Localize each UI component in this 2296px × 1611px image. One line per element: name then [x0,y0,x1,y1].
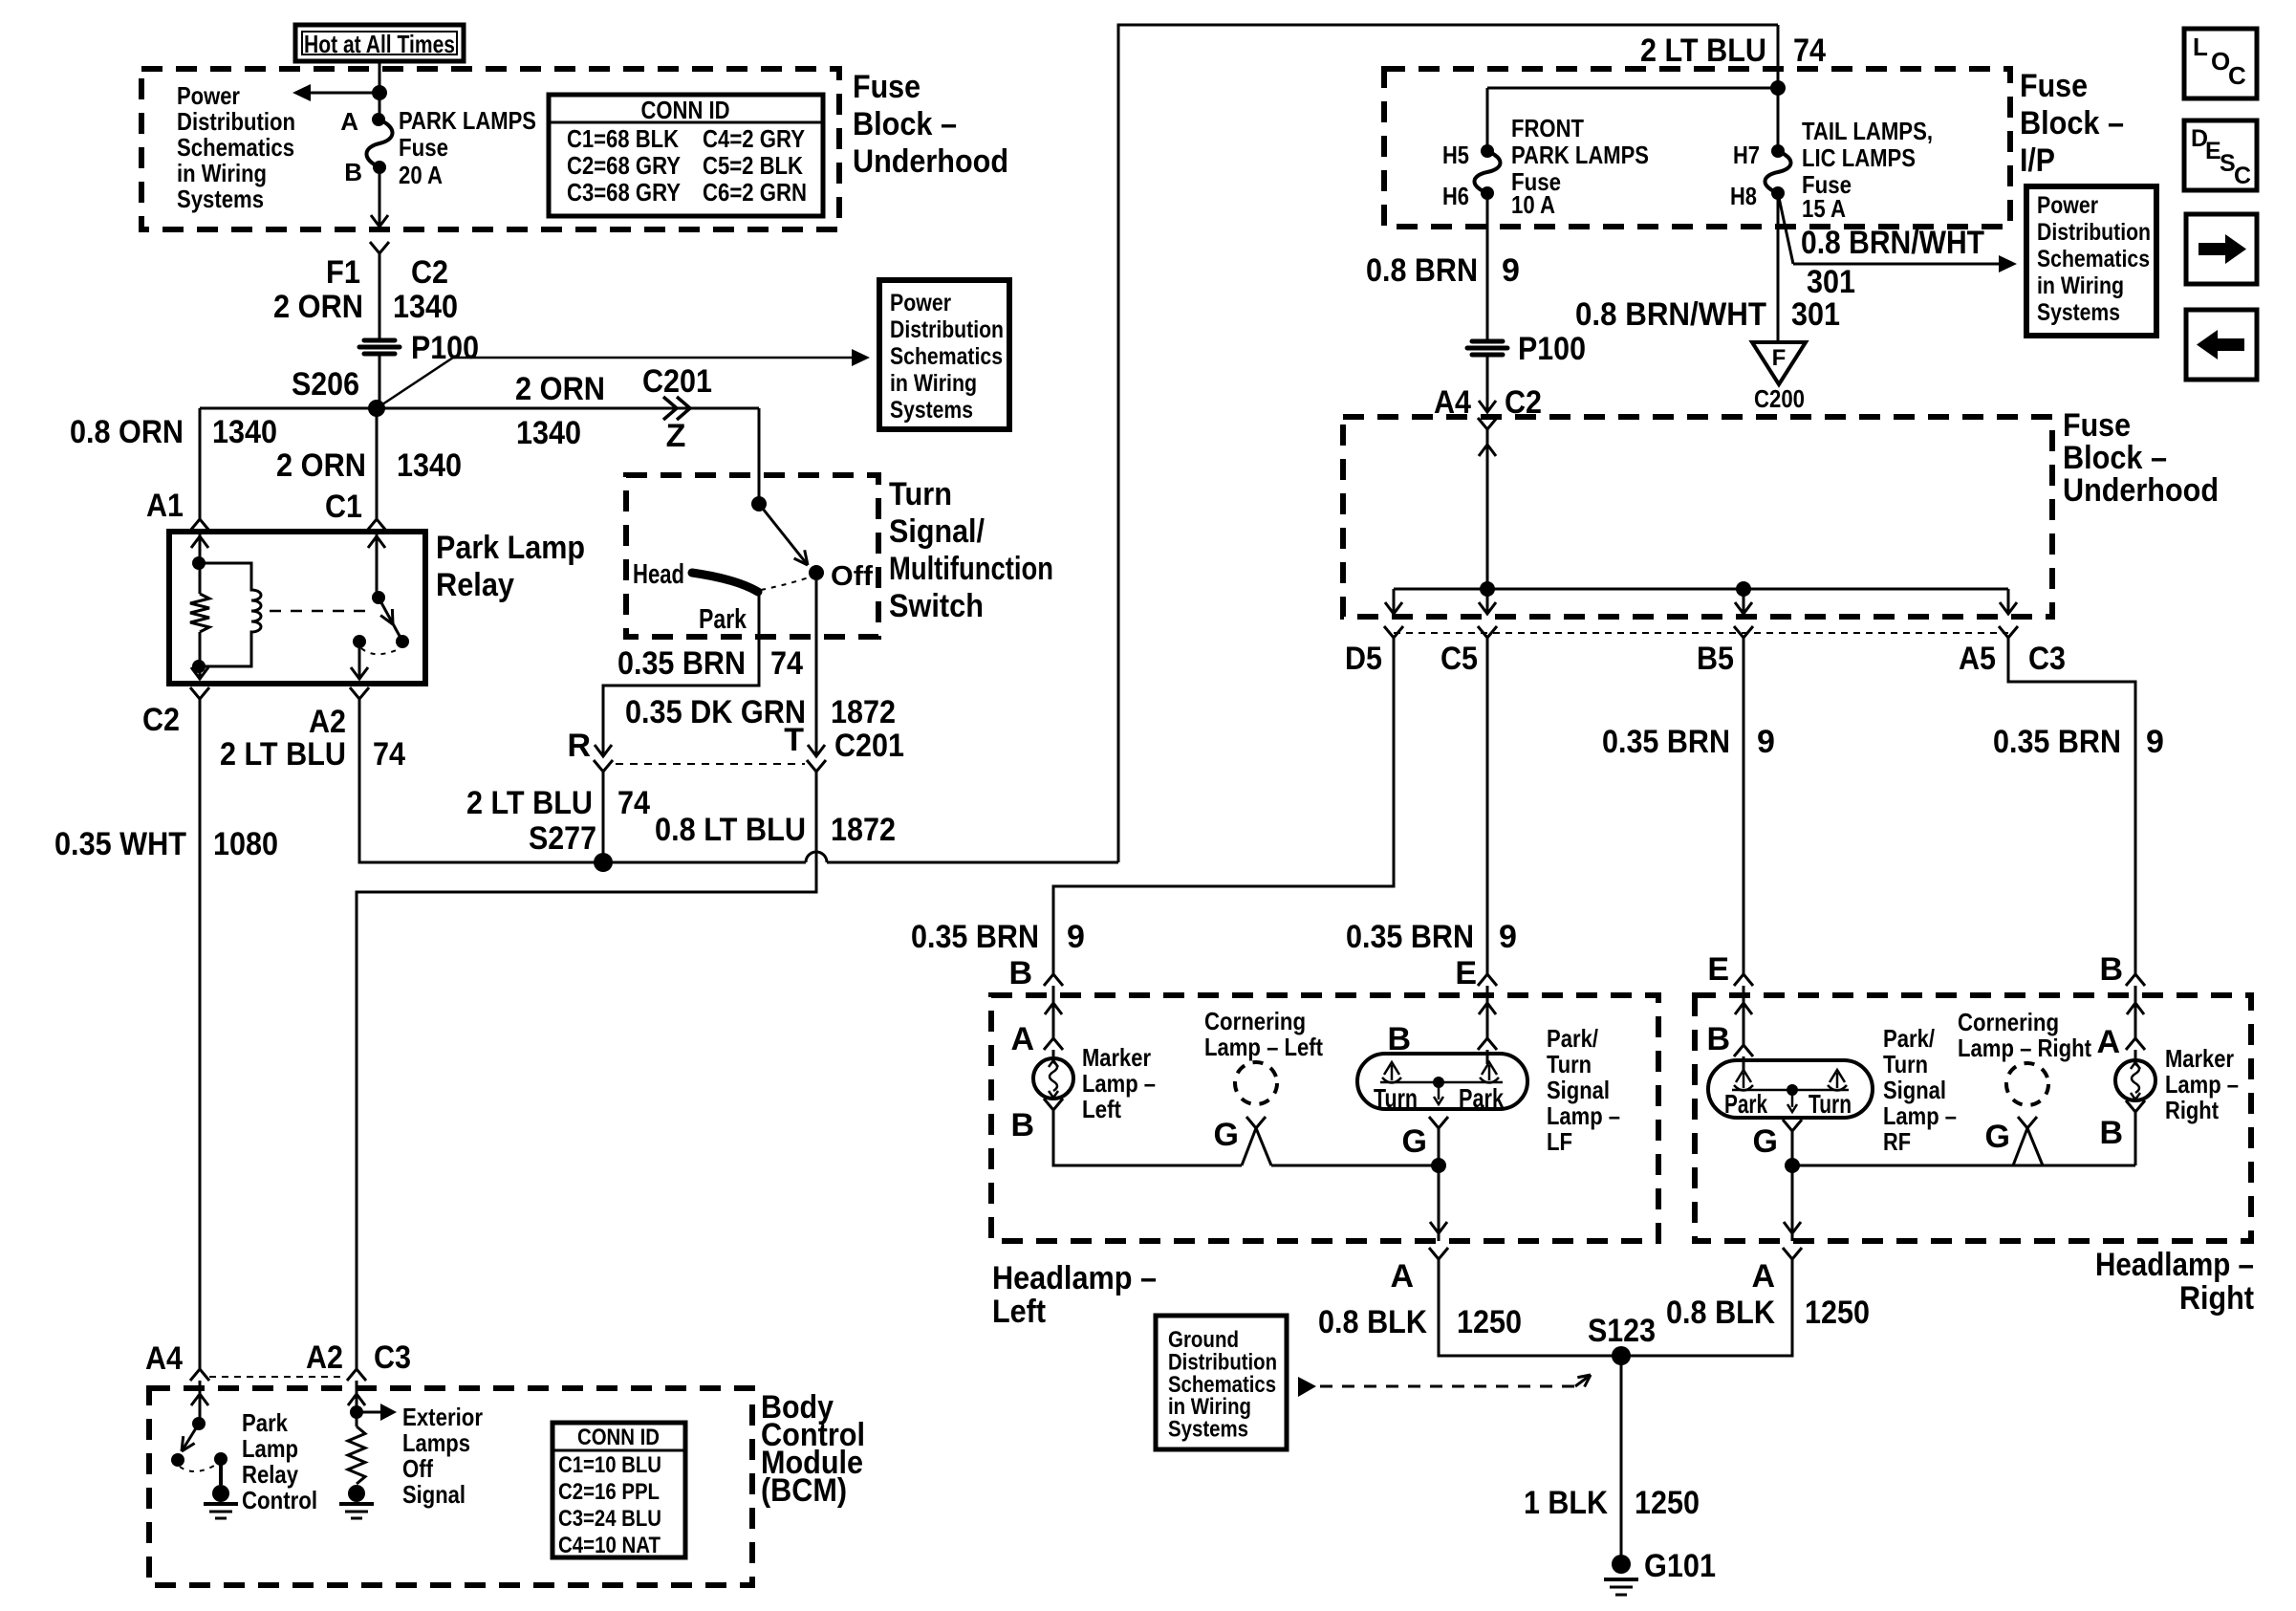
svg-text:0.8 BRN/WHT: 0.8 BRN/WHT [1575,296,1766,333]
svg-text:2 LT BLU: 2 LT BLU [1640,33,1766,69]
svg-text:20 A: 20 A [399,161,443,189]
wire: Off output 0.35 DK GRN 1872 down to T [815,580,818,755]
svg-text:in Wiring: in Wiring [177,159,267,187]
svg-text:A: A [1390,1258,1414,1295]
wire: 0.35 WHT 1080 from relay C2 down to BCM A4 [199,710,202,1369]
svg-text:C2=16 PPL: C2=16 PPL [558,1479,660,1505]
svg-text:A5: A5 [1959,641,1996,677]
svg-text:A4: A4 [145,1340,183,1377]
svg-text:Headlamp –: Headlamp – [992,1260,1157,1296]
svg-text:Signal: Signal [1883,1076,1946,1104]
svg-text:Fuse: Fuse [399,133,448,162]
svg-text:Park: Park [1724,1089,1767,1119]
svg-text:0.35 BRN: 0.35 BRN [1993,724,2121,760]
svg-text:Park Lamp: Park Lamp [436,530,585,566]
park/turn RF turn filament [1836,1073,1839,1088]
relay coil bottom junction dot [192,660,206,673]
park/turn LF park filament [1488,1065,1491,1080]
svg-text:0.35 BRN: 0.35 BRN [911,919,1039,955]
svg-text:Turn: Turn [1809,1089,1852,1119]
relay pin C1 wire with up arrow [376,534,379,598]
wire: marker left B to ground bus [1053,1110,1242,1165]
bus junction dot C5 [1480,581,1495,597]
svg-text:Headlamp –: Headlamp – [2095,1247,2254,1283]
svg-text:Relay: Relay [242,1460,298,1489]
CONN ID table (fuse block underhood left) [549,95,823,216]
connector dashed mating line (D5-A5) [1394,632,2008,634]
svg-text:G: G [1402,1123,1427,1160]
LOC reference box [2184,29,2257,98]
wire: S277 to right riser (0.8 LT BLU), hop over 1872 wire [603,861,806,864]
connector chevron E (left park/turn feed) [1478,974,1497,986]
svg-text:CONN ID: CONN ID [641,96,730,124]
bus drop D5 with arrow [1393,589,1396,614]
park/turn RF park filament [1743,1073,1745,1088]
park/turn RF internal common [1732,1089,1849,1092]
svg-text:Signal: Signal [402,1480,466,1509]
svg-text:Head: Head [633,559,684,590]
svg-text:74: 74 [373,736,405,773]
connector chevron A2 C3 (BCM) [347,1369,366,1381]
svg-text:Schematics: Schematics [177,133,294,162]
connector chevron C5 [1478,626,1497,638]
svg-text:Cornering: Cornering [1958,1008,2059,1036]
svg-text:S206: S206 [292,366,359,403]
svg-text:0.35 BRN: 0.35 BRN [1346,919,1474,955]
svg-text:PARK LAMPS: PARK LAMPS [399,106,536,135]
svg-text:A2: A2 [309,704,346,740]
svg-text:B: B [1008,955,1032,991]
wire: right headlamp ground out pin A [1791,1165,1794,1241]
turn signal / multifunction switch dashed box [626,475,878,637]
relay coil top junction dot [192,556,206,570]
svg-text:LIC LAMPS: LIC LAMPS [1802,143,1916,172]
svg-text:301: 301 [1807,264,1855,300]
svg-text:Power: Power [890,290,951,316]
svg-text:2 ORN: 2 ORN [515,371,605,407]
svg-text:Left: Left [992,1294,1046,1330]
svg-text:Off: Off [402,1454,433,1483]
svg-text:TAIL LAMPS,: TAIL LAMPS, [1802,117,1933,145]
svg-text:C: C [2228,61,2246,90]
next-page arrow box [2186,214,2257,284]
inline connector P100 (left) [364,338,395,343]
svg-text:(BCM): (BCM) [761,1472,847,1509]
wire: relay A2 down then right to splice S277 (2 LT BLU 74) [359,710,603,862]
svg-text:Cornering: Cornering [1204,1007,1306,1035]
relay coil winding [199,563,261,666]
connector chevron A2 (relay) [350,687,369,699]
svg-text:Block –: Block – [853,106,957,142]
svg-text:H8: H8 [1730,182,1757,210]
bus drop B5 with arrow [1743,589,1745,614]
park/turn signal lamp - RF bulb [1708,1060,1873,1118]
svg-text:1340: 1340 [393,289,458,325]
svg-text:D5: D5 [1345,641,1382,677]
svg-text:P100: P100 [411,330,479,366]
BCM exterior lamps off signal wire [356,1388,358,1419]
park/turn LF internal common [1380,1081,1503,1084]
park/turn RF pin B wire [1743,995,1745,1045]
connector C201 pin T (arrow + chevron) [808,745,825,756]
svg-text:C6=2 GRN: C6=2 GRN [703,178,807,207]
ground G101 [1612,1555,1631,1574]
svg-text:FRONT: FRONT [1511,114,1584,142]
connector chevron A4 C2 (fuse block underhood) [1478,418,1497,429]
svg-text:Lamp: Lamp [242,1434,298,1463]
svg-text:9: 9 [1499,919,1517,955]
svg-text:2 ORN: 2 ORN [276,447,366,484]
svg-text:Signal: Signal [1547,1076,1610,1104]
ground bus junction dot (left) [1431,1158,1446,1173]
BCM exterior lamps output arrow [357,1411,382,1414]
svg-text:Fuse: Fuse [2063,407,2131,444]
svg-text:15 A: 15 A [1802,194,1846,223]
svg-text:0.8 BLK: 0.8 BLK [1666,1295,1775,1331]
svg-text:9: 9 [1067,919,1085,955]
svg-text:Fuse: Fuse [2020,68,2088,104]
relay switch moving contact arm [379,598,401,638]
bus junction dot B5 [1736,581,1751,597]
svg-text:B: B [2099,1115,2123,1151]
body control module dashed box [149,1388,752,1585]
wire: feed bus inside fuse block I/P [1487,87,1778,90]
svg-text:B: B [1706,1021,1730,1057]
connector chevron B (left marker feed) [1044,974,1063,986]
svg-text:Park/: Park/ [1883,1024,1935,1053]
wire: R to splice S277 (2 LT BLU 74) [602,779,605,862]
wire: C201 to turn signal switch [758,408,761,504]
wire: 1 BLK 1250 from S123 to G101 [1620,1356,1623,1556]
svg-text:Schematics: Schematics [890,343,1003,370]
wire: A4 C2 into park lamp feed bus [1486,429,1489,589]
svg-text:Signal/: Signal/ [889,513,985,550]
BCM driver switch arm end dot [171,1453,184,1467]
wire: D5 0.35 BRN 9 to left marker lamp B [1053,644,1394,974]
svg-text:Z: Z [666,418,686,454]
headlamp - left dashed box [991,995,1658,1241]
svg-text:C201: C201 [642,363,712,400]
svg-text:H5: H5 [1442,141,1469,169]
svg-text:Fuse: Fuse [853,69,921,105]
svg-text:Lamps: Lamps [402,1428,470,1457]
connector chevron A (marker left) [1044,1038,1063,1050]
relay pin A1 wire to bottom / pin C2 exit arrow [199,666,202,680]
relay switch common dot [372,591,385,604]
svg-text:T: T [784,722,804,758]
svg-text:Systems: Systems [2037,299,2120,326]
connector C201 dashed mating line [616,763,805,765]
svg-text:Power: Power [2037,192,2098,219]
relay switch travel dashed arc [361,648,399,654]
svg-text:A: A [2096,1024,2120,1060]
switch feed dot (from C201) [751,496,767,512]
svg-text:C3=24 BLU: C3=24 BLU [558,1506,661,1532]
svg-text:Block –: Block – [2020,105,2124,142]
svg-text:9: 9 [1502,252,1520,289]
svg-text:Distribution: Distribution [890,316,1004,343]
svg-text:G: G [1214,1117,1239,1153]
svg-text:C201: C201 [834,728,904,764]
BCM driver switch arm with arrow [182,1424,199,1451]
svg-text:C3: C3 [374,1339,411,1376]
svg-text:C2: C2 [142,702,180,738]
wire: C5 0.35 BRN 9 to left park/turn lamp E [1486,644,1489,974]
connector chevron B5 [1734,626,1753,638]
wire: Park output 0.35 BRN 74 down-left to R [603,591,759,755]
connector chevron B (right marker feed) [2126,974,2145,986]
cornering lamp right G pin legs [2013,1128,2027,1165]
relay resistor (coil suppression) [190,594,209,632]
DESC reference box [2184,120,2257,190]
bus drop C5 with arrow [1486,589,1489,614]
svg-text:1 BLK: 1 BLK [1524,1485,1608,1521]
svg-text:Underhood: Underhood [2063,472,2219,509]
BCM park lamp relay control driver wire [199,1388,202,1424]
wire: branch to power distribution (arrow left) [310,92,379,95]
relay pin A1 wire with up arrow [199,534,202,563]
wire: P100 to S206 [379,354,381,408]
svg-text:74: 74 [617,785,650,821]
svg-text:CONN ID: CONN ID [577,1425,660,1450]
wire: 0.8 BLK 1250 left to S123 [1439,1267,1619,1356]
wire: arrow to power distribution schematics box [453,357,855,359]
switch wiper arm with arrow [759,504,808,565]
svg-text:0.8 BLK: 0.8 BLK [1318,1304,1427,1340]
junction dot on battery feed [372,85,387,100]
svg-text:74: 74 [770,645,803,682]
cornering lamp - left bulb (dashed) [1235,1062,1277,1104]
svg-text:Turn: Turn [1547,1050,1592,1078]
ground symbol (BCM exterior lamps) [348,1485,365,1502]
svg-text:0.35 BRN: 0.35 BRN [617,645,746,682]
fuse block - underhood (left) dashed outline [141,69,839,229]
svg-text:S277: S277 [529,820,596,857]
switch position Off contact dot [809,565,824,580]
svg-text:C2=68 GRY: C2=68 GRY [567,151,681,180]
svg-text:Relay: Relay [436,567,514,603]
svg-text:B: B [344,158,362,186]
connector chevron A1 [190,519,209,531]
svg-text:G101: G101 [1644,1548,1716,1584]
svg-text:LF: LF [1547,1127,1572,1156]
previous-page arrow box [2186,310,2257,380]
park lamp relay box [169,532,425,684]
svg-text:0.8 ORN: 0.8 ORN [70,414,184,450]
park lamp feed bus bar [1394,588,2008,591]
BCM connector dashed mating line [209,1376,345,1378]
connector chevron A (left headlamp ground) [1429,1248,1448,1259]
svg-text:Block –: Block – [2063,440,2167,476]
svg-text:B: B [2099,951,2123,988]
svg-text:PARK LAMPS: PARK LAMPS [1511,141,1649,169]
wire: fuse output to connector C2 [379,167,381,226]
svg-text:Right: Right [2179,1280,2254,1317]
wire: right ground bus [1792,1165,2135,1167]
wire: H8 branch to power distribution arrow 0.8 BRN/WHT 301 [1778,193,1793,264]
svg-text:H7: H7 [1733,141,1760,169]
svg-text:Lamp –: Lamp – [2165,1070,2239,1099]
wire: left headlamp ground out pin A [1438,1165,1440,1241]
wire: marker right B to ground bus [2134,1112,2137,1165]
svg-text:C: C [2234,163,2251,189]
svg-text:C1=10 BLU: C1=10 BLU [558,1452,661,1478]
power distribution schematics box (middle) [879,280,1009,429]
wire: riser from S277 up and across to fuse block I/P (2 LT BLU 74) [1118,25,1778,862]
marker lamp left pin A wire [1052,995,1055,1038]
svg-text:Right: Right [2165,1096,2219,1124]
svg-text:Park: Park [699,604,747,635]
wire: H8 down to C200 0.8 BRN/WHT 301 [1777,193,1780,342]
svg-text:RF: RF [1883,1127,1911,1156]
svg-text:Switch: Switch [889,588,984,624]
connector chevron C1 [367,519,386,531]
svg-text:Marker: Marker [2165,1044,2234,1073]
svg-text:in Wiring: in Wiring [2037,272,2124,299]
svg-text:E: E [1707,951,1729,988]
marker lamp - right bulb [2115,1060,2155,1100]
svg-text:Control: Control [242,1486,317,1514]
svg-text:1080: 1080 [213,826,278,862]
svg-text:Turn: Turn [1883,1050,1928,1078]
wire: ground bus to park/turn lamp G [1271,1165,1439,1167]
power distribution schematics box (right) [2026,186,2156,336]
svg-text:Systems: Systems [1168,1417,1248,1443]
connector chevron C2 (relay) [190,687,209,699]
svg-text:B: B [1010,1107,1034,1143]
ground bus junction dot (right) [1785,1158,1800,1173]
park/turn LF turn filament [1391,1065,1394,1080]
park/turn signal lamp - LF bulb [1357,1054,1527,1109]
svg-text:9: 9 [2146,724,2164,760]
wire to BCM internal ground [219,1459,223,1485]
svg-text:1872: 1872 [831,812,896,848]
ground distribution schematics box [1156,1316,1287,1449]
BCM driver switch travel dashed arc [180,1465,216,1471]
svg-text:A: A [340,107,358,136]
svg-text:Off: Off [831,561,873,592]
svg-text:A: A [1751,1258,1775,1295]
switch travel dashed arc [761,577,812,590]
connector chevron F1 C2 [370,242,389,253]
relay actuation dashed link [270,610,375,613]
connector chevron D5 [1384,626,1403,638]
fuse block - I/P dashed outline [1384,69,2010,227]
svg-text:A1: A1 [146,488,184,524]
svg-text:R: R [567,728,591,764]
svg-text:A2: A2 [306,1339,343,1376]
svg-text:C2: C2 [411,254,448,291]
svg-text:Power: Power [177,81,240,110]
BCM exterior lamps junction dot [350,1405,363,1419]
svg-text:Park/: Park/ [1547,1024,1598,1053]
svg-text:Lamp –: Lamp – [1547,1101,1620,1130]
wire: 0.8 BRN 9 from H6 to P100 [1486,193,1489,340]
svg-text:0.35 DK GRN: 0.35 DK GRN [625,694,806,730]
marker lamp - left bulb [1033,1058,1073,1099]
svg-text:Exterior: Exterior [402,1403,483,1431]
inline connector P100 (right) [1472,339,1503,344]
svg-text:C3=68 GRY: C3=68 GRY [567,178,681,207]
wire: battery feed into fuse block [379,61,381,120]
svg-text:C3: C3 [2028,641,2066,677]
wire segment 2 ORN 1340 (fuse to P100) [379,259,381,339]
svg-text:C5: C5 [1440,641,1478,677]
headlamp - right dashed box [1695,995,2251,1241]
svg-text:10 A: 10 A [1511,190,1555,219]
svg-text:Distribution: Distribution [2037,219,2151,246]
svg-text:2 LT BLU: 2 LT BLU [220,736,346,773]
svg-text:1250: 1250 [1457,1304,1522,1340]
svg-text:C4=2 GRY: C4=2 GRY [703,124,805,153]
svg-text:1872: 1872 [831,694,896,730]
relay switch fixed contact dot (pin A2) [353,635,366,648]
relay pin A2 wire to bottom with down arrow [358,642,361,680]
svg-text:74: 74 [1793,33,1826,69]
svg-text:Hot at All Times: Hot at All Times [304,30,455,58]
svg-text:Lamp – Right: Lamp – Right [1958,1034,2091,1062]
svg-text:L: L [2193,33,2208,61]
fuse block - underhood (right) dashed outline [1343,417,2052,617]
svg-text:Park: Park [1459,1083,1504,1113]
svg-text:G: G [1985,1119,2010,1155]
svg-text:2 ORN: 2 ORN [273,289,363,325]
svg-text:F1: F1 [326,254,360,291]
svg-text:C5=2 BLK: C5=2 BLK [703,151,803,180]
power feed box: Hot at All Times [295,25,464,61]
svg-text:1250: 1250 [1635,1485,1700,1521]
cornering lamp G pin legs [1242,1128,1256,1165]
BCM pull-up resistor [356,1419,358,1426]
switch Head-Park thick arc [692,573,758,592]
connector chevron A4 (BCM) [190,1369,209,1381]
svg-text:C1: C1 [325,489,362,525]
svg-text:1340: 1340 [397,447,462,484]
connector chevron A (marker right) [2126,1038,2145,1050]
BCM driver fixed contact dot [214,1452,227,1466]
bus drop A5 with arrow [2007,589,2010,614]
svg-text:Lamp – Left: Lamp – Left [1204,1033,1323,1061]
svg-text:Lamp –: Lamp – [1082,1069,1156,1098]
dashed reference arrow to S123 [1298,1377,1316,1397]
wire: diagonal branch from S206 to power distribution arrow [377,358,453,408]
relay switch moving contact end dot [396,635,409,648]
svg-text:H6: H6 [1442,182,1469,210]
wire: B5 0.35 BRN 9 to right park/turn lamp E [1743,644,1745,974]
svg-text:A: A [1010,1021,1034,1057]
svg-text:G: G [1753,1123,1778,1160]
svg-text:Underhood: Underhood [853,143,1008,180]
wire: 0.8 BLK 1250 right to S123 [1623,1267,1792,1356]
svg-text:301: 301 [1791,296,1840,333]
svg-text:1340: 1340 [212,414,277,450]
BCM driver switch common dot [192,1417,206,1430]
svg-text:Turn: Turn [1374,1083,1418,1113]
svg-text:1250: 1250 [1805,1295,1870,1331]
wire to fuse H5 [1486,88,1489,151]
svg-text:0.35 BRN: 0.35 BRN [1602,724,1730,760]
wire: branch down to relay pin C1 (2 ORN 1340) [376,408,379,519]
wire: T down crossing S277 wire, 0.8 LT BLU 1872 [357,779,816,1369]
svg-text:2 LT BLU: 2 LT BLU [466,785,593,821]
svg-text:Park: Park [242,1408,288,1437]
connector chevron A (right headlamp ground) [1783,1248,1802,1259]
svg-text:in Wiring: in Wiring [890,370,977,397]
marker lamp right pin A wire [2134,995,2137,1038]
connector chevron B (park/turn RF) [1734,1045,1753,1056]
wire: main 2 ORN bus at S206 [200,407,759,410]
wire: A5 C3 0.35 BRN 9 to right marker lamp B [2008,644,2135,974]
